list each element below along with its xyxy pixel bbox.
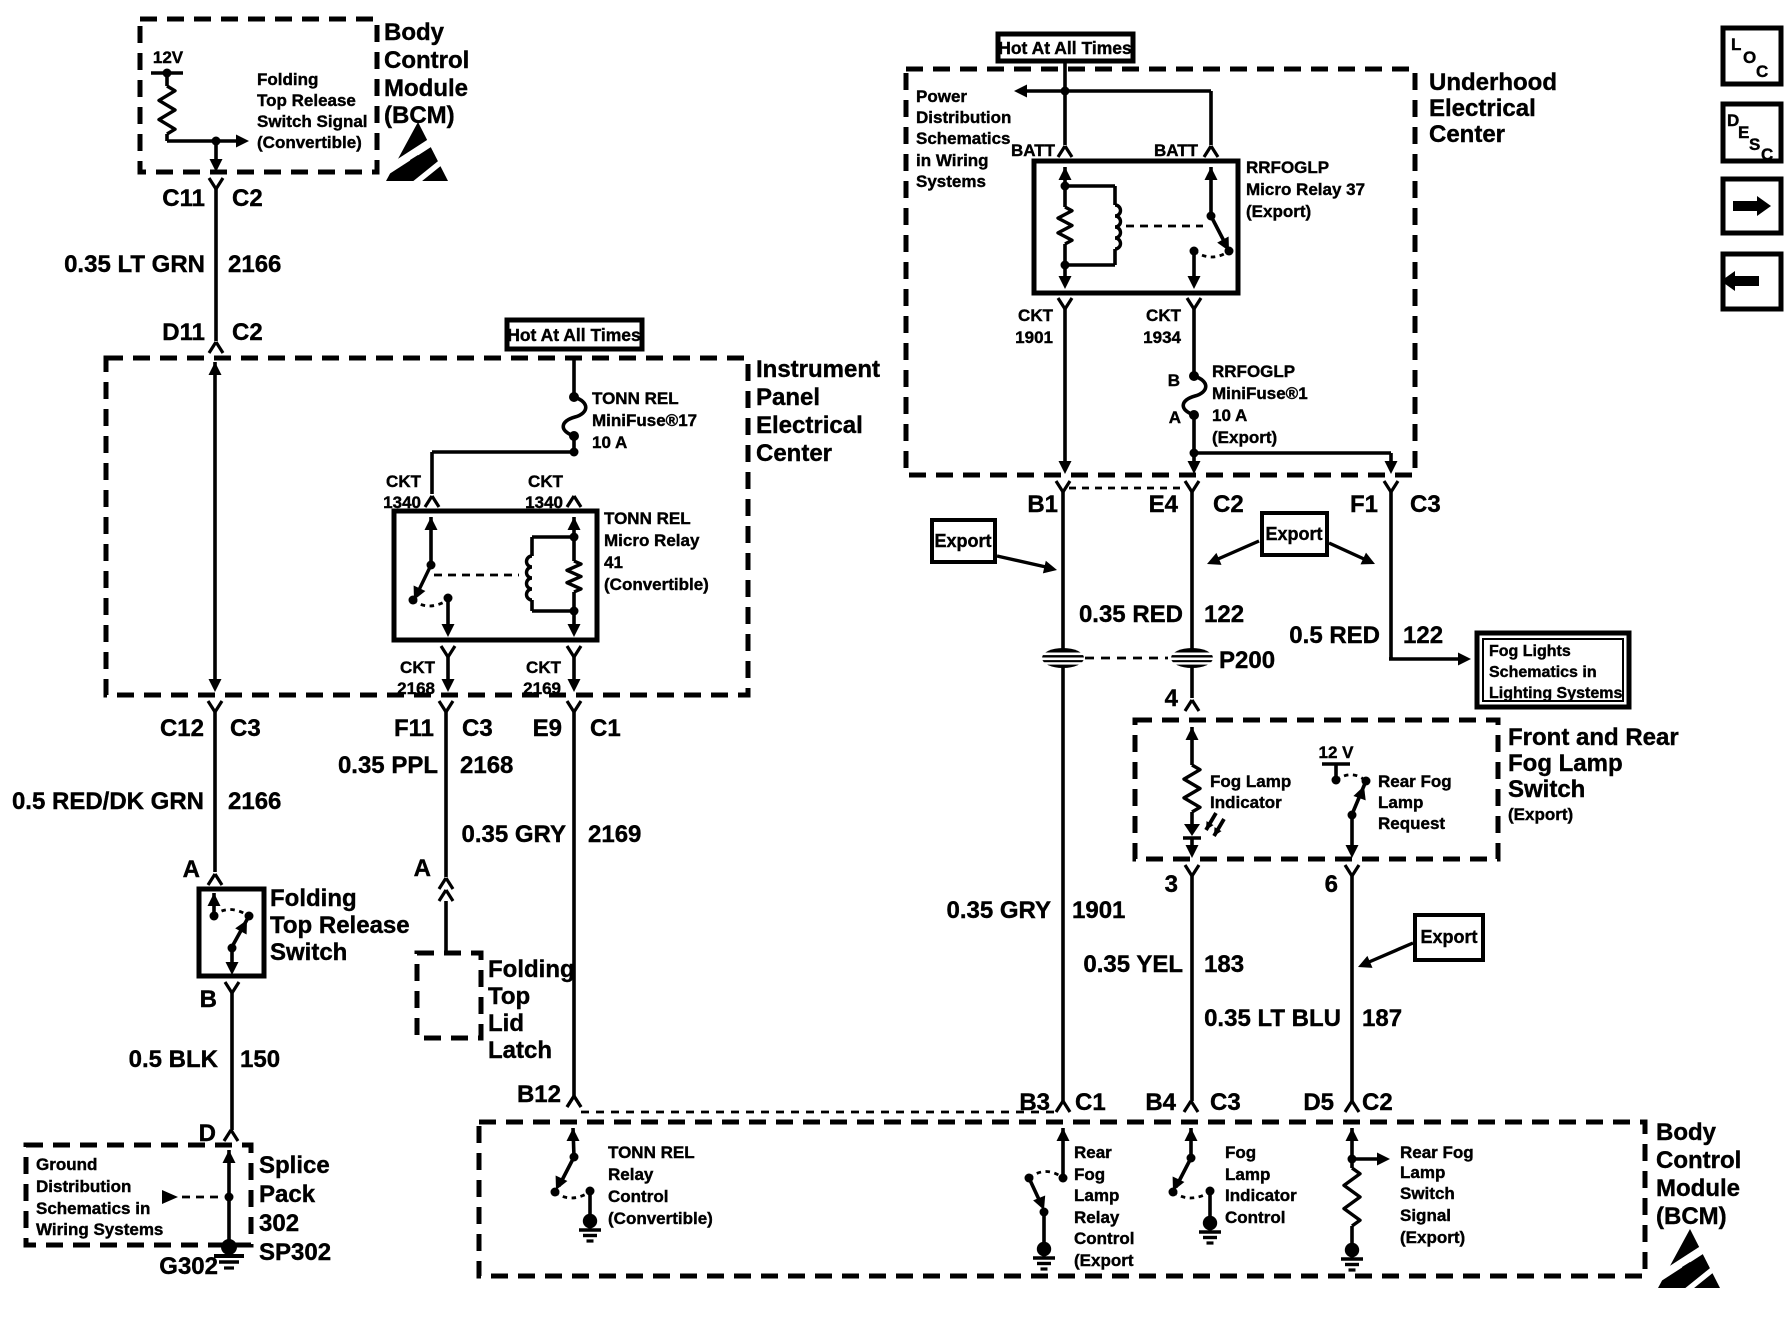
svg-text:E9: E9 (533, 715, 562, 742)
svg-text:C2: C2 (1362, 1089, 1393, 1116)
svg-text:TONN REL: TONN REL (608, 1143, 695, 1162)
svg-text:Rear: Rear (1074, 1143, 1112, 1162)
svg-text:Lid: Lid (488, 1010, 524, 1037)
svg-text:C2: C2 (1213, 491, 1244, 518)
svg-text:E4: E4 (1149, 491, 1179, 518)
svg-text:F1: F1 (1350, 491, 1378, 518)
svg-text:(Export: (Export (1074, 1251, 1134, 1270)
svg-text:0.5 RED: 0.5 RED (1289, 622, 1380, 649)
svg-text:O: O (1743, 48, 1756, 67)
svg-text:C2: C2 (232, 319, 263, 346)
svg-text:B: B (200, 986, 217, 1013)
svg-text:Wiring Systems: Wiring Systems (36, 1220, 163, 1239)
svg-text:Switch: Switch (270, 939, 347, 966)
svg-text:Pack: Pack (259, 1181, 316, 1208)
svg-text:2168: 2168 (397, 679, 435, 698)
svg-text:Relay: Relay (1074, 1208, 1120, 1227)
svg-text:1901: 1901 (1072, 897, 1125, 924)
svg-text:10 A: 10 A (592, 433, 627, 452)
svg-text:12V: 12V (153, 48, 184, 67)
svg-text:Indicator: Indicator (1225, 1186, 1297, 1205)
svg-text:1934: 1934 (1143, 328, 1181, 347)
svg-text:0.35 YEL: 0.35 YEL (1083, 951, 1183, 978)
svg-text:0.35 LT BLU: 0.35 LT BLU (1204, 1005, 1341, 1032)
svg-text:Fog: Fog (1074, 1165, 1105, 1184)
svg-text:Fog Lights: Fog Lights (1489, 643, 1571, 660)
svg-text:3: 3 (1165, 871, 1178, 898)
svg-text:C3: C3 (462, 715, 493, 742)
svg-text:A: A (414, 855, 431, 882)
svg-text:Request: Request (1378, 814, 1445, 833)
svg-text:Relay: Relay (608, 1165, 654, 1184)
svg-text:Lamp: Lamp (1074, 1186, 1119, 1205)
svg-text:(Convertible): (Convertible) (608, 1209, 713, 1228)
svg-text:Micro Relay: Micro Relay (604, 531, 700, 550)
svg-text:Top: Top (488, 983, 530, 1010)
svg-text:Underhood: Underhood (1429, 69, 1557, 96)
svg-text:Body: Body (1656, 1119, 1717, 1146)
svg-text:Switch: Switch (1400, 1184, 1455, 1203)
svg-text:CKT: CKT (400, 658, 436, 677)
svg-text:Control: Control (1074, 1229, 1134, 1248)
svg-text:G302: G302 (159, 1253, 218, 1280)
svg-text:0.35 GRY: 0.35 GRY (947, 897, 1052, 924)
svg-text:Ground: Ground (36, 1155, 97, 1174)
svg-text:10 A: 10 A (1212, 406, 1247, 425)
svg-text:C1: C1 (590, 715, 621, 742)
svg-text:Schematics in: Schematics in (36, 1199, 150, 1218)
svg-text:Micro Relay 37: Micro Relay 37 (1246, 180, 1365, 199)
svg-text:Top Release: Top Release (270, 912, 410, 939)
svg-text:1901: 1901 (1015, 328, 1053, 347)
svg-text:Lighting Systems: Lighting Systems (1489, 685, 1622, 702)
svg-text:CKT: CKT (1146, 306, 1182, 325)
svg-text:12 V: 12 V (1319, 743, 1355, 762)
svg-text:BATT: BATT (1154, 141, 1199, 160)
svg-text:0.35 LT GRN: 0.35 LT GRN (64, 251, 205, 278)
svg-text:C1: C1 (1075, 1089, 1106, 1116)
svg-text:Folding: Folding (257, 70, 318, 89)
svg-text:E: E (1738, 123, 1749, 142)
svg-text:P200: P200 (1219, 647, 1275, 674)
svg-text:183: 183 (1204, 951, 1244, 978)
svg-text:CKT: CKT (1018, 306, 1054, 325)
svg-text:Top Release: Top Release (257, 91, 356, 110)
svg-text:(Convertible): (Convertible) (257, 133, 362, 152)
svg-text:Front and Rear: Front and Rear (1508, 724, 1679, 751)
svg-text:Panel: Panel (756, 384, 820, 411)
svg-text:C11: C11 (162, 185, 205, 212)
svg-text:B3: B3 (1019, 1089, 1050, 1116)
svg-text:F11: F11 (394, 715, 434, 742)
svg-text:Electrical: Electrical (756, 412, 863, 439)
svg-text:SP302: SP302 (259, 1239, 331, 1266)
svg-text:122: 122 (1403, 622, 1443, 649)
svg-text:Systems: Systems (916, 172, 986, 191)
svg-text:Signal: Signal (1400, 1206, 1451, 1225)
svg-text:Export: Export (1420, 927, 1477, 947)
svg-text:Fog: Fog (1225, 1143, 1256, 1162)
svg-text:Schematics: Schematics (916, 129, 1011, 148)
svg-text:187: 187 (1362, 1005, 1402, 1032)
svg-text:Splice: Splice (259, 1152, 330, 1179)
svg-text:Latch: Latch (488, 1037, 552, 1064)
svg-text:C3: C3 (230, 715, 261, 742)
svg-text:2168: 2168 (460, 752, 513, 779)
svg-text:122: 122 (1204, 601, 1244, 628)
svg-text:MiniFuse®1: MiniFuse®1 (1212, 384, 1308, 403)
svg-text:Rear Fog: Rear Fog (1400, 1143, 1474, 1162)
svg-text:(BCM): (BCM) (1656, 1203, 1727, 1230)
svg-text:Lamp: Lamp (1378, 793, 1423, 812)
svg-text:Fog Lamp: Fog Lamp (1210, 772, 1291, 791)
svg-text:A: A (1169, 408, 1181, 427)
svg-text:Folding: Folding (270, 885, 357, 912)
svg-text:0.35 PPL: 0.35 PPL (338, 752, 438, 779)
svg-text:TONN REL: TONN REL (604, 509, 691, 528)
svg-text:2166: 2166 (228, 251, 281, 278)
svg-text:Instrument: Instrument (756, 356, 880, 383)
svg-text:Folding: Folding (488, 956, 575, 983)
svg-text:Center: Center (1429, 121, 1505, 148)
svg-text:C3: C3 (1410, 491, 1441, 518)
svg-text:0.35 GRY: 0.35 GRY (462, 821, 567, 848)
svg-text:(Export): (Export) (1246, 202, 1311, 221)
svg-text:C3: C3 (1210, 1089, 1241, 1116)
svg-text:2166: 2166 (228, 788, 281, 815)
svg-text:Control: Control (384, 47, 469, 74)
svg-text:Control: Control (1656, 1147, 1741, 1174)
svg-text:Rear Fog: Rear Fog (1378, 772, 1452, 791)
svg-text:D5: D5 (1303, 1089, 1334, 1116)
svg-text:C: C (1756, 62, 1768, 81)
svg-text:(Export): (Export) (1212, 428, 1277, 447)
svg-text:MiniFuse®17: MiniFuse®17 (592, 411, 697, 430)
svg-text:CKT: CKT (528, 472, 564, 491)
svg-text:Switch: Switch (1508, 776, 1585, 803)
svg-text:Electrical: Electrical (1429, 95, 1536, 122)
svg-text:Indicator: Indicator (1210, 793, 1282, 812)
svg-text:(Export): (Export) (1400, 1228, 1465, 1247)
svg-text:B12: B12 (517, 1081, 561, 1108)
svg-text:Hot At All Times: Hot At All Times (998, 38, 1132, 58)
svg-text:Switch Signal: Switch Signal (257, 112, 368, 131)
svg-text:Lamp: Lamp (1400, 1163, 1445, 1182)
svg-text:302: 302 (259, 1210, 299, 1237)
svg-text:Export: Export (1265, 524, 1322, 544)
svg-text:Distribution: Distribution (916, 108, 1011, 127)
svg-text:D11: D11 (162, 319, 205, 346)
svg-text:Power: Power (916, 87, 967, 106)
svg-text:Module: Module (1656, 1175, 1740, 1202)
svg-text:Lamp: Lamp (1225, 1165, 1270, 1184)
svg-text:CKT: CKT (386, 472, 422, 491)
svg-text:Hot At All Times: Hot At All Times (507, 325, 641, 345)
svg-text:0.35 RED: 0.35 RED (1079, 601, 1183, 628)
svg-text:Export: Export (934, 531, 991, 551)
svg-text:Center: Center (756, 440, 832, 467)
svg-text:A: A (183, 856, 200, 883)
svg-text:S: S (1749, 135, 1760, 154)
svg-text:150: 150 (240, 1046, 280, 1073)
svg-text:B4: B4 (1145, 1089, 1176, 1116)
svg-text:Control: Control (608, 1187, 668, 1206)
svg-text:Fog Lamp: Fog Lamp (1508, 750, 1623, 777)
svg-text:Distribution: Distribution (36, 1177, 131, 1196)
svg-text:L: L (1731, 35, 1741, 54)
svg-text:(Export): (Export) (1508, 805, 1573, 824)
svg-text:4: 4 (1165, 685, 1179, 712)
svg-text:B: B (1168, 371, 1180, 390)
svg-text:RRFOGLP: RRFOGLP (1212, 362, 1295, 381)
svg-text:Schematics in: Schematics in (1489, 664, 1597, 681)
svg-text:0.5 BLK: 0.5 BLK (129, 1046, 219, 1073)
svg-text:(Convertible): (Convertible) (604, 575, 709, 594)
svg-text:B1: B1 (1027, 491, 1058, 518)
svg-text:C: C (1761, 145, 1773, 164)
svg-text:Module: Module (384, 75, 468, 102)
svg-text:2169: 2169 (588, 821, 641, 848)
svg-text:in Wiring: in Wiring (916, 151, 989, 170)
svg-text:TONN REL: TONN REL (592, 389, 679, 408)
svg-text:C2: C2 (232, 185, 263, 212)
svg-text:0.5 RED/DK GRN: 0.5 RED/DK GRN (12, 788, 204, 815)
svg-text:BATT: BATT (1011, 141, 1056, 160)
svg-text:RRFOGLP: RRFOGLP (1246, 158, 1329, 177)
svg-text:2169: 2169 (523, 679, 561, 698)
svg-text:CKT: CKT (526, 658, 562, 677)
svg-text:41: 41 (604, 553, 623, 572)
svg-text:C12: C12 (160, 715, 204, 742)
svg-text:Control: Control (1225, 1208, 1285, 1227)
svg-text:Body: Body (384, 19, 445, 46)
svg-text:6: 6 (1325, 871, 1338, 898)
